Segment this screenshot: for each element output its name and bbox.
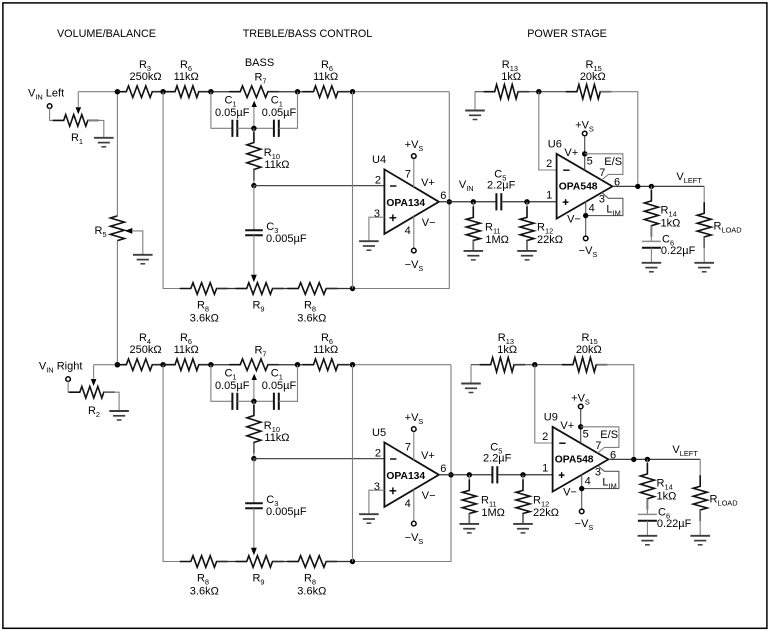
wire C1 row right left xyxy=(279,92,298,129)
wire R13 to node right xyxy=(514,364,573,366)
svg-text:BASS: BASS xyxy=(245,57,274,69)
svg-text:2.2µF: 2.2µF xyxy=(483,453,512,465)
potentiometer R7 right bass xyxy=(229,359,279,371)
svg-text:3: 3 xyxy=(599,194,605,206)
wire main row right start xyxy=(94,364,127,366)
wire R8b to bottom node right xyxy=(326,561,352,563)
node main-right C xyxy=(208,362,213,367)
svg-text:0.22µF: 0.22µF xyxy=(657,518,692,530)
svg-text:E/S: E/S xyxy=(600,429,618,441)
resistor R8b right 3.6k xyxy=(287,556,337,568)
wire R15 feedback right xyxy=(596,365,634,460)
op-amp U5 OPA134 body xyxy=(384,442,439,507)
ground R11 left xyxy=(464,251,484,260)
svg-text:20kΩ: 20kΩ xyxy=(580,71,606,83)
node feedback output left xyxy=(635,184,640,189)
resistor RLOAD left xyxy=(697,202,711,248)
svg-text:V−: V− xyxy=(563,486,577,498)
capacitor C6 right 0.22uF xyxy=(638,514,657,520)
wire C1a to center right xyxy=(237,400,274,402)
wire R11 to gnd left xyxy=(472,241,474,251)
wiper arrow R9 left xyxy=(251,275,257,283)
svg-text:1kΩ: 1kΩ xyxy=(661,218,681,230)
wire C6 to gnd left xyxy=(650,248,652,263)
wire pin3 to ground U4 xyxy=(369,217,385,240)
wire R3-R6a left xyxy=(152,91,175,93)
capacitor C1b left 0.05uF xyxy=(274,120,279,137)
wiper arrow R7 left xyxy=(252,101,257,107)
resistor R8b left 3.6k xyxy=(287,283,337,295)
wire C1 row right right xyxy=(279,365,298,402)
resistor R11 right 1M xyxy=(462,479,476,524)
ground R2 xyxy=(109,411,129,420)
ground C6 right xyxy=(638,536,658,545)
svg-text:1kΩ: 1kΩ xyxy=(497,344,517,356)
wire R7 wiper stem right xyxy=(253,376,255,401)
resistor R6b left 11k xyxy=(303,86,349,98)
svg-text:4: 4 xyxy=(589,203,595,215)
svg-text:3: 3 xyxy=(374,481,380,493)
wire R13 to node left xyxy=(518,91,577,93)
ground R13 left xyxy=(465,111,485,120)
wire pin4 to -VS U6 xyxy=(585,201,587,236)
resistor R6a left 11k xyxy=(164,86,210,98)
capacitor C5 right 2.2uF xyxy=(492,466,497,483)
resistor R4 250k xyxy=(115,359,163,371)
svg-text:VIN Left: VIN Left xyxy=(28,87,64,101)
node R14 branch right xyxy=(645,457,650,462)
svg-text:4: 4 xyxy=(405,498,411,510)
ground R13 right xyxy=(461,384,481,393)
wire C1-R10 right xyxy=(253,401,255,415)
svg-text:VOLUME/BALANCE: VOLUME/BALANCE xyxy=(57,28,156,40)
svg-text:TREBLE/BASS CONTROL: TREBLE/BASS CONTROL xyxy=(243,28,373,40)
wire bottom node to box corner right xyxy=(353,365,452,562)
svg-text:3: 3 xyxy=(374,208,380,220)
plus sign U9 xyxy=(559,472,565,478)
input terminal VIN right xyxy=(66,377,71,382)
resistor R8a left 3.6k xyxy=(180,283,228,295)
svg-text:3.6kΩ: 3.6kΩ xyxy=(190,586,219,598)
wire R14 right xyxy=(646,459,648,474)
potentiometer R9 left treble xyxy=(236,283,284,295)
svg-text:OPA134: OPA134 xyxy=(386,471,425,482)
wire R1 wiper to main node xyxy=(77,92,79,107)
node inverting input net right xyxy=(251,456,256,461)
svg-text:OPA134: OPA134 xyxy=(386,198,425,209)
svg-text:POWER STAGE: POWER STAGE xyxy=(527,28,607,40)
wire R12 to gnd right xyxy=(522,514,524,524)
wire R7-R6b left xyxy=(268,91,314,93)
ground R12 left xyxy=(517,251,537,260)
svg-text:U6: U6 xyxy=(548,139,562,151)
wire gnd to R13 right xyxy=(471,364,491,366)
wire R7-R6b right xyxy=(268,364,314,366)
svg-text:E/S: E/S xyxy=(604,156,622,168)
wire R15 feedback left xyxy=(600,92,638,187)
svg-text:7: 7 xyxy=(405,169,411,181)
node main-right E xyxy=(350,362,355,367)
wire R6b to node left xyxy=(338,91,353,93)
wire +VS to pin5 U9 xyxy=(580,409,582,444)
wire node to C3 left xyxy=(253,186,255,231)
node C1 center left xyxy=(251,126,256,131)
svg-text:OPA548: OPA548 xyxy=(559,182,598,193)
svg-text:1kΩ: 1kΩ xyxy=(657,491,677,503)
svg-text:3.6kΩ: 3.6kΩ xyxy=(190,313,219,325)
node main-right B xyxy=(160,362,165,367)
minus sign U5 xyxy=(390,458,396,460)
+VS terminal U6 xyxy=(582,131,587,136)
wire LIM loop U6 xyxy=(586,193,623,216)
capacitor C6 left 0.22uF xyxy=(642,241,661,247)
wire R3-R6a right xyxy=(152,364,175,366)
svg-text:11kΩ: 11kΩ xyxy=(264,432,289,444)
node R12 branch right xyxy=(520,472,525,477)
node R13-R15 left xyxy=(536,89,541,94)
wire R6a-R7 left xyxy=(199,91,240,93)
capacitor C1a right 0.05uF xyxy=(232,393,237,410)
node main-left A xyxy=(115,89,120,94)
wire R6b to node right xyxy=(338,364,353,366)
wire +VS to pin5 U6 xyxy=(584,136,586,171)
node balance join right channel xyxy=(115,362,120,367)
wire input terminal to R1 xyxy=(50,108,64,120)
svg-text:20kΩ: 20kΩ xyxy=(576,344,602,356)
resistor R12 right 22k xyxy=(516,479,530,524)
capacitor C1a left 0.05uF xyxy=(232,120,237,137)
-VS terminal U6 xyxy=(583,236,588,241)
wire main row left start xyxy=(78,91,126,93)
svg-text:VIN Right: VIN Right xyxy=(39,360,83,374)
wire R8a-R9 left xyxy=(217,288,247,290)
svg-text:0.05µF: 0.05µF xyxy=(262,107,297,119)
wire pin7 to +VS U4 xyxy=(413,158,415,187)
wire R11 left xyxy=(472,202,474,218)
node pin4 U9 xyxy=(579,486,584,491)
wire C5 to pin1 right xyxy=(497,474,552,476)
wire mid vertical right xyxy=(352,365,354,562)
wire node to opamp pin2 right xyxy=(254,458,385,460)
wire C1 row left left xyxy=(211,92,233,129)
ground C6 left xyxy=(642,263,662,272)
wire R10 to node left xyxy=(253,170,255,186)
svg-text:V+: V+ xyxy=(564,147,578,159)
resistor R15 right 20k xyxy=(562,358,607,372)
resistor R10 left 11k xyxy=(247,132,261,181)
wiper arrow R2 xyxy=(91,379,97,386)
wire node to C3 right xyxy=(253,459,255,504)
svg-text:1MΩ: 1MΩ xyxy=(481,507,505,519)
svg-text:5: 5 xyxy=(583,429,589,441)
resistor R6a right 11k xyxy=(164,359,210,371)
svg-text:0.005µF: 0.005µF xyxy=(266,233,307,245)
svg-text:11kΩ: 11kΩ xyxy=(313,71,338,83)
resistor R6b right 11k xyxy=(303,359,349,371)
node main-left D xyxy=(295,89,300,94)
wire mid vertical left xyxy=(352,92,354,289)
svg-text:2.2µF: 2.2µF xyxy=(487,180,516,192)
svg-text:11kΩ: 11kΩ xyxy=(313,344,338,356)
capacitor C3 left 0.005uF xyxy=(245,230,263,235)
wire R7 wiper stem left xyxy=(253,103,255,128)
wire pin7 to +VS U5 xyxy=(413,431,415,460)
wire R12 right xyxy=(522,475,524,491)
+VS terminal U4 xyxy=(412,154,417,159)
svg-text:7: 7 xyxy=(405,442,411,454)
wire node to box corner right xyxy=(353,364,452,366)
wire R14 left xyxy=(650,186,652,201)
svg-text:U5: U5 xyxy=(372,427,386,439)
svg-text:U9: U9 xyxy=(544,412,558,424)
minus sign U4 xyxy=(390,185,396,187)
wire balance vertical lower xyxy=(116,241,118,365)
node main-right A xyxy=(115,362,120,367)
svg-text:4: 4 xyxy=(585,476,591,488)
wire R9-R8b right xyxy=(273,561,299,563)
wire E/S enable loop U6 xyxy=(585,154,623,180)
potentiometer R1 xyxy=(53,115,99,127)
wire R2 wiper to main node xyxy=(93,365,95,379)
capacitor C1b right 0.05uF xyxy=(274,393,279,410)
wire bottom node to box corner left xyxy=(353,92,450,289)
capacitor C3 right 0.005uF xyxy=(245,503,263,508)
node C1 center right xyxy=(251,399,256,404)
wire left vertical of box left xyxy=(163,92,191,289)
svg-text:1MΩ: 1MΩ xyxy=(485,234,509,246)
minus sign U6 xyxy=(563,169,569,171)
ground R11 right xyxy=(460,524,480,533)
svg-text:1kΩ: 1kΩ xyxy=(501,71,521,83)
resistor R13 right 1k xyxy=(480,358,525,372)
-VS terminal U9 xyxy=(579,509,584,514)
node pin5 U6 xyxy=(582,151,587,156)
node pin5 U9 xyxy=(578,424,583,429)
svg-text:OPA548: OPA548 xyxy=(555,455,594,466)
wire RLOAD right xyxy=(699,459,701,486)
wire R1 to ground xyxy=(88,120,104,137)
svg-text:3.6kΩ: 3.6kΩ xyxy=(297,313,326,325)
ground R5 xyxy=(133,255,153,264)
minus sign U9 xyxy=(559,442,565,444)
resistor R13 left 1k xyxy=(484,85,529,99)
svg-text:22kΩ: 22kΩ xyxy=(537,234,563,246)
wire RLOAD to gnd left xyxy=(703,237,705,262)
wire RLOAD to gnd right xyxy=(699,510,701,535)
svg-text:6: 6 xyxy=(440,463,446,475)
-VS terminal U5 xyxy=(412,521,417,526)
svg-text:250kΩ: 250kΩ xyxy=(130,344,162,356)
ground R1 xyxy=(94,138,114,147)
ground RLOAD left xyxy=(694,263,714,272)
ground U5 pin3 xyxy=(359,514,379,523)
wire gnd to R13 left xyxy=(475,91,495,93)
wiper arrow R9 right xyxy=(251,548,257,556)
svg-text:V+: V+ xyxy=(560,420,574,432)
wire R14 to C6 left xyxy=(650,226,652,242)
ground RLOAD right xyxy=(690,536,710,545)
resistor R3 250k xyxy=(115,86,163,98)
svg-text:U4: U4 xyxy=(372,154,386,166)
svg-text:3.6kΩ: 3.6kΩ xyxy=(297,586,326,598)
plus sign U6 xyxy=(563,199,569,205)
resistor R8a right 3.6k xyxy=(180,556,228,568)
wire R12 to gnd left xyxy=(526,241,528,251)
wire C3 to R9 wiper right xyxy=(253,508,255,548)
capacitor C5 left 2.2uF xyxy=(496,193,501,210)
node main-right D xyxy=(295,362,300,367)
svg-text:V+: V+ xyxy=(421,177,435,189)
wire RLOAD left xyxy=(703,186,705,213)
wire U9 output row xyxy=(608,458,700,460)
wire R6a-R7 right xyxy=(199,364,240,366)
svg-text:V−: V− xyxy=(567,213,581,225)
svg-text:11kΩ: 11kΩ xyxy=(174,344,199,356)
wire U4 output row xyxy=(439,201,496,203)
wire R8a-R9 right xyxy=(217,561,247,563)
svg-text:2: 2 xyxy=(546,158,552,170)
svg-text:1: 1 xyxy=(546,189,552,201)
wire R8b to bottom node left xyxy=(326,288,352,290)
resistor R14 left 1k xyxy=(644,190,658,237)
node R11 branch left xyxy=(471,199,476,204)
potentiometer R2 xyxy=(69,386,115,398)
wire node to pin2 U6 xyxy=(539,92,557,170)
+VS terminal U9 xyxy=(578,404,583,409)
node pin4 U6 xyxy=(583,213,588,218)
svg-text:11kΩ: 11kΩ xyxy=(174,71,199,83)
wire C1-R10 left xyxy=(253,128,255,142)
svg-text:7: 7 xyxy=(599,167,605,179)
potentiometer R5 balance xyxy=(110,216,124,241)
node feedback output right xyxy=(631,457,636,462)
wire node to opamp pin2 left xyxy=(254,185,385,187)
wire R12 left xyxy=(526,202,528,218)
wire LIM loop U9 xyxy=(582,466,619,489)
wire C1a to center left xyxy=(237,127,274,129)
svg-text:7: 7 xyxy=(595,440,601,452)
node R12 branch left xyxy=(524,199,529,204)
wire balance vertical xyxy=(116,92,118,216)
wire U6 output row xyxy=(612,185,704,187)
svg-text:0.22µF: 0.22µF xyxy=(661,245,696,257)
node opamp1 output on box left xyxy=(447,199,452,204)
wire C3 to R9 wiper left xyxy=(253,235,255,275)
wire node to box corner left xyxy=(353,91,450,93)
svg-text:2: 2 xyxy=(542,431,548,443)
svg-text:5: 5 xyxy=(587,156,593,168)
node main-left C xyxy=(208,89,213,94)
potentiometer R9 right treble xyxy=(236,556,284,568)
wire gnd stub R13 right xyxy=(470,365,472,383)
node main-left B xyxy=(160,89,165,94)
node opamp1 output on box right xyxy=(448,472,453,477)
wire pin4 to -VS U4 xyxy=(413,216,415,248)
+VS terminal U5 xyxy=(412,427,417,432)
node bottom row mid vertical left xyxy=(350,286,355,291)
wire C5 to pin1 left xyxy=(501,201,556,203)
plus sign U4 xyxy=(390,214,397,221)
potentiometer R7 left bass xyxy=(229,86,279,98)
svg-text:0.05µF: 0.05µF xyxy=(215,380,250,392)
wire R5 wiper to ground xyxy=(132,231,142,254)
wire R11 right xyxy=(468,475,470,491)
node bottom row mid vertical right xyxy=(350,559,355,564)
wire E/S enable loop U9 xyxy=(581,427,619,453)
svg-text:6: 6 xyxy=(440,190,446,202)
op-amp U9 OPA548 body xyxy=(553,427,609,492)
input terminal VIN left xyxy=(47,104,52,109)
node main-left E xyxy=(350,89,355,94)
wire R11 to gnd right xyxy=(468,514,470,524)
wire C6 to gnd right xyxy=(646,521,648,536)
resistor R14 right 1k xyxy=(640,463,654,510)
svg-text:V+: V+ xyxy=(421,450,435,462)
node R13-R15 right xyxy=(532,362,537,367)
-VS terminal U4 xyxy=(412,248,417,253)
wire U5 output row xyxy=(439,474,492,476)
svg-text:4: 4 xyxy=(405,225,411,237)
wire R9-R8b left xyxy=(273,288,299,290)
resistor R12 left 22k xyxy=(520,206,534,251)
ground R12 right xyxy=(513,524,533,533)
node R14 branch left xyxy=(649,184,654,189)
svg-text:0.05µF: 0.05µF xyxy=(262,380,297,392)
svg-text:V−: V− xyxy=(422,490,436,502)
wire node to pin2 U9 xyxy=(535,365,553,443)
svg-text:0.005µF: 0.005µF xyxy=(266,506,307,518)
wire left vertical of box right xyxy=(163,365,191,562)
resistor R11 left 1M xyxy=(466,206,480,251)
resistor R10 right 11k xyxy=(247,405,261,454)
wire input terminal to R2 xyxy=(68,381,80,392)
op-amp U6 OPA548 body xyxy=(557,154,613,219)
svg-text:22kΩ: 22kΩ xyxy=(533,507,559,519)
svg-text:1: 1 xyxy=(542,462,548,474)
wire R10 to node right xyxy=(253,443,255,459)
node inverting input net left xyxy=(251,183,256,188)
svg-text:11kΩ: 11kΩ xyxy=(264,159,289,171)
node R11 branch right xyxy=(467,472,472,477)
wire R2 to ground xyxy=(104,392,119,411)
wire gnd stub R13 left xyxy=(474,92,476,110)
op-amp U4 OPA134 body xyxy=(384,169,439,234)
svg-text:3: 3 xyxy=(595,467,601,479)
resistor RLOAD right xyxy=(693,475,707,521)
ground U4 pin3 xyxy=(359,241,379,250)
wire C1 row left right xyxy=(211,365,233,402)
svg-text:250kΩ: 250kΩ xyxy=(130,71,162,83)
svg-text:2: 2 xyxy=(375,175,381,187)
svg-text:V−: V− xyxy=(422,217,436,229)
plus sign U5 xyxy=(390,487,397,494)
svg-text:2: 2 xyxy=(375,448,381,460)
wire pin3 to ground U5 xyxy=(369,490,385,513)
wiper arrow R7 right xyxy=(252,374,257,380)
wiper arrow R1 xyxy=(76,107,82,114)
wire pin4 to -VS U5 xyxy=(413,489,415,521)
wire R14 to C6 right xyxy=(646,499,648,515)
wire pin4 to -VS U9 xyxy=(581,474,583,509)
resistor R15 left 20k xyxy=(566,85,611,99)
wiper arrow R5 xyxy=(125,228,133,234)
svg-text:0.05µF: 0.05µF xyxy=(215,107,250,119)
